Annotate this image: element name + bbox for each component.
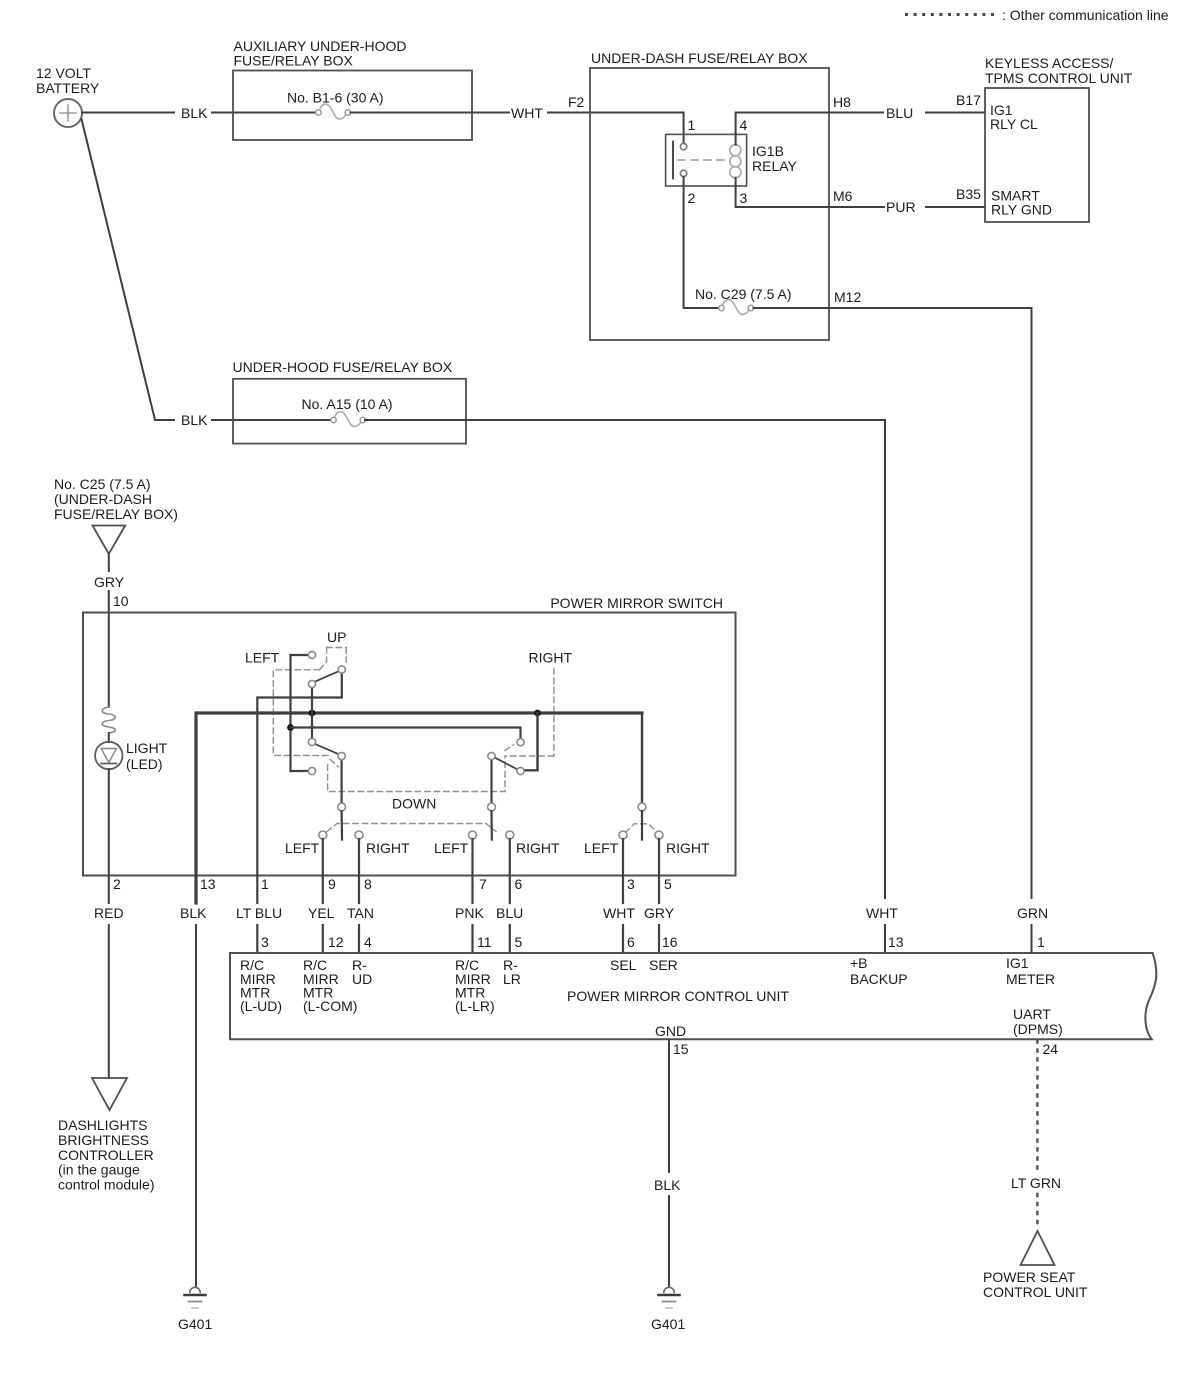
svg-text:KEYLESS ACCESS/: KEYLESS ACCESS/ bbox=[985, 55, 1114, 71]
aux under-hood fuse/relay box bbox=[233, 38, 472, 140]
svg-text:(L-COM): (L-COM) bbox=[303, 998, 357, 1014]
svg-text:24: 24 bbox=[1043, 1041, 1059, 1057]
svg-text:H8: H8 bbox=[833, 94, 851, 110]
svg-text:TAN: TAN bbox=[347, 905, 374, 921]
svg-text:(L-UD): (L-UD) bbox=[240, 998, 282, 1014]
svg-text:CONTROL UNIT: CONTROL UNIT bbox=[983, 1284, 1088, 1300]
svg-text:6: 6 bbox=[627, 934, 635, 950]
svg-text:9: 9 bbox=[328, 876, 336, 892]
svg-text:LIGHT: LIGHT bbox=[126, 740, 168, 756]
svg-text:12 VOLT: 12 VOLT bbox=[36, 65, 91, 81]
svg-text:4: 4 bbox=[740, 117, 748, 133]
svg-text:1: 1 bbox=[1037, 934, 1045, 950]
svg-text:B17: B17 bbox=[956, 92, 981, 108]
svg-text:UNDER-DASH FUSE/RELAY BOX: UNDER-DASH FUSE/RELAY BOX bbox=[591, 50, 808, 66]
connector C25 stub from under-dash fuse box bbox=[54, 476, 178, 554]
svg-text:(UNDER-DASH: (UNDER-DASH bbox=[54, 491, 152, 507]
svg-text:7: 7 bbox=[479, 876, 487, 892]
svg-text:15: 15 bbox=[673, 1041, 689, 1057]
svg-text:YEL: YEL bbox=[308, 905, 335, 921]
wire WHT under-hood fuse to control unit pin13 (+B BACKUP) bbox=[365, 420, 885, 953]
svg-text:IG1B: IG1B bbox=[752, 143, 784, 159]
svg-text:BLK: BLK bbox=[654, 1177, 681, 1193]
wire PNK pin7 bbox=[471, 839, 473, 953]
wire second link to right contact bbox=[291, 728, 521, 739]
svg-text:B35: B35 bbox=[956, 186, 981, 202]
svg-text:3: 3 bbox=[740, 190, 748, 206]
svg-text:No. A15 (10 A): No. A15 (10 A) bbox=[302, 396, 393, 412]
svg-text:LEFT: LEFT bbox=[434, 840, 469, 856]
LED light (LIGHT (LED)) bbox=[95, 733, 168, 772]
svg-text:SEL: SEL bbox=[610, 957, 637, 973]
wire relay pin2 to fuse C29 bbox=[684, 177, 719, 308]
svg-text:No. C25 (7.5 A): No. C25 (7.5 A) bbox=[54, 476, 151, 492]
svg-text:BLK: BLK bbox=[181, 105, 208, 121]
keyless access / TPMS control unit bbox=[985, 55, 1133, 222]
svg-text:G401: G401 bbox=[651, 1316, 685, 1332]
svg-text:TPMS CONTROL UNIT: TPMS CONTROL UNIT bbox=[985, 70, 1133, 86]
battery B1 (12 volt battery) bbox=[36, 65, 100, 127]
wire YEL pin9 bbox=[322, 839, 324, 953]
svg-text:WHT: WHT bbox=[866, 905, 898, 921]
svg-text:WHT: WHT bbox=[603, 905, 635, 921]
svg-text:RELAY: RELAY bbox=[752, 158, 798, 174]
dotted communication line UART pin24 bbox=[1036, 1041, 1038, 1229]
svg-text:LT GRN: LT GRN bbox=[1011, 1175, 1061, 1191]
selector 1 pivot and blade bbox=[338, 803, 346, 839]
svg-text:LEFT: LEFT bbox=[245, 650, 280, 666]
node junction on LEFT common bbox=[287, 724, 294, 731]
svg-text:2: 2 bbox=[113, 876, 121, 892]
wire BLK battery to aux fuse box bbox=[82, 112, 316, 114]
wire thick bus right end to selector 3 bbox=[641, 713, 643, 803]
power mirror control unit box bbox=[230, 953, 1156, 1039]
svg-text:5: 5 bbox=[664, 876, 672, 892]
selector labels bbox=[285, 840, 710, 856]
svg-text:PNK: PNK bbox=[455, 905, 484, 921]
selector 3 pivot and blade bbox=[638, 803, 646, 839]
svg-text:LT BLU: LT BLU bbox=[236, 905, 282, 921]
node junction bus right bbox=[534, 710, 541, 717]
svg-text:M6: M6 bbox=[833, 188, 853, 204]
svg-text:RIGHT: RIGHT bbox=[666, 840, 710, 856]
switch up-left assembly: contacts and blade bbox=[257, 651, 345, 903]
svg-text:F2: F2 bbox=[568, 94, 585, 110]
wire battery diagonal to under-hood fuse box bbox=[82, 119, 332, 420]
node junction bus left bbox=[309, 710, 316, 717]
svg-text:1: 1 bbox=[261, 876, 269, 892]
svg-text:FUSE/RELAY BOX): FUSE/RELAY BOX) bbox=[54, 506, 178, 522]
svg-text:BLU: BLU bbox=[886, 105, 913, 121]
svg-text:POWER SEAT: POWER SEAT bbox=[983, 1269, 1076, 1285]
svg-text:UD: UD bbox=[352, 971, 372, 987]
svg-text:control module): control module) bbox=[58, 1177, 155, 1193]
svg-text:LEFT: LEFT bbox=[584, 840, 619, 856]
svg-text:BACKUP: BACKUP bbox=[850, 971, 908, 987]
wire BLU relay pin4 to keyless unit (H8/B17) bbox=[736, 113, 985, 145]
svg-text:BRIGHTNESS: BRIGHTNESS bbox=[58, 1132, 149, 1148]
svg-text:1: 1 bbox=[688, 117, 696, 133]
fuse C29 (7.5 A) bbox=[719, 300, 754, 315]
connector arrow to dashlights controller bbox=[92, 1078, 127, 1110]
svg-text:(LED): (LED) bbox=[126, 756, 163, 772]
svg-text:G401: G401 bbox=[178, 1316, 212, 1332]
svg-text:(DPMS): (DPMS) bbox=[1013, 1021, 1063, 1037]
wire thick bus from pin13 bbox=[196, 713, 642, 903]
pin number row above control unit bbox=[261, 934, 678, 950]
svg-text:RIGHT: RIGHT bbox=[516, 840, 560, 856]
svg-text:PUR: PUR bbox=[886, 199, 916, 215]
ground G401 right bbox=[651, 1287, 685, 1332]
svg-text:16: 16 bbox=[662, 934, 678, 950]
svg-text:13: 13 bbox=[200, 876, 216, 892]
svg-text:13: 13 bbox=[888, 934, 904, 950]
svg-text:UP: UP bbox=[327, 629, 346, 645]
svg-text:GRY: GRY bbox=[644, 905, 675, 921]
dashed linkage UP mechanism bbox=[273, 648, 346, 767]
svg-text:POWER MIRROR SWITCH: POWER MIRROR SWITCH bbox=[550, 595, 723, 611]
svg-text:GRY: GRY bbox=[94, 574, 125, 590]
svg-text:BLK: BLK bbox=[181, 412, 208, 428]
svg-text:+B: +B bbox=[850, 955, 868, 971]
svg-text:(L-LR): (L-LR) bbox=[455, 998, 495, 1014]
svg-text:RIGHT: RIGHT bbox=[529, 650, 573, 666]
wire GRN fuse C29 to control unit pin1 (M12) bbox=[754, 308, 1032, 953]
svg-text:RLY CL: RLY CL bbox=[990, 116, 1038, 132]
selector 2 pivot and blade bbox=[488, 803, 496, 839]
svg-text:BLU: BLU bbox=[496, 905, 523, 921]
svg-text:POWER MIRROR CONTROL UNIT: POWER MIRROR CONTROL UNIT bbox=[567, 988, 789, 1004]
svg-text:M12: M12 bbox=[834, 289, 861, 305]
svg-text:BLK: BLK bbox=[180, 905, 207, 921]
fuse B1-6 (30 A) bbox=[316, 104, 351, 119]
svg-text:2: 2 bbox=[688, 190, 696, 206]
svg-text:3: 3 bbox=[627, 876, 635, 892]
svg-text:RLY GND: RLY GND bbox=[991, 202, 1052, 218]
under-hood fuse/relay box bbox=[233, 359, 467, 444]
svg-text:SER: SER bbox=[649, 957, 678, 973]
under-dash fuse/relay box bbox=[590, 50, 829, 340]
svg-text:FUSE/RELAY BOX: FUSE/RELAY BOX bbox=[234, 53, 354, 69]
svg-text:(in the gauge: (in the gauge bbox=[58, 1162, 140, 1178]
svg-text:UNDER-HOOD FUSE/RELAY BOX: UNDER-HOOD FUSE/RELAY BOX bbox=[233, 359, 453, 375]
selector contact circles row bbox=[319, 831, 663, 839]
wire WHT pin3 bbox=[622, 839, 624, 953]
svg-text:5: 5 bbox=[515, 934, 523, 950]
ground G401 left bbox=[178, 1287, 212, 1332]
wire GRY connector C25 to switch pin10 bbox=[108, 554, 110, 707]
switch right assembly: contacts and blade bbox=[488, 739, 524, 803]
svg-text:LR: LR bbox=[503, 971, 521, 987]
dashed linkage DOWN mechanism bbox=[328, 757, 505, 792]
svg-text:No. B1-6 (30 A): No. B1-6 (30 A) bbox=[287, 90, 384, 106]
fuse A15 (10 A) bbox=[331, 412, 366, 427]
dashed linkage selector bar bbox=[327, 824, 657, 833]
svg-text:IG1: IG1 bbox=[1006, 955, 1029, 971]
svg-text:RIGHT: RIGHT bbox=[366, 840, 410, 856]
wire LT BLU pin1 lower part bbox=[256, 925, 258, 953]
wire PUR relay pin3 to keyless unit (M6/B35) bbox=[736, 178, 985, 207]
svg-text:4: 4 bbox=[364, 934, 372, 950]
svg-text:UART: UART bbox=[1013, 1006, 1051, 1022]
wire BLK control unit GND pin15 to ground bbox=[668, 1040, 670, 1287]
wire BLU pin6 bbox=[509, 839, 511, 953]
svg-text:DOWN: DOWN bbox=[392, 796, 436, 812]
wire right contact drop from bus bbox=[524, 713, 537, 770]
svg-text:: Other communication line: : Other communication line bbox=[1002, 7, 1169, 23]
svg-text:GND: GND bbox=[655, 1023, 686, 1039]
legend: other communication line bbox=[905, 7, 1169, 23]
svg-text:12: 12 bbox=[328, 934, 344, 950]
svg-text:METER: METER bbox=[1006, 971, 1055, 987]
svg-text:WHT: WHT bbox=[511, 105, 543, 121]
wire GRY pin5 bbox=[658, 839, 660, 953]
wire LEFT common (pin contacts link) bbox=[291, 655, 309, 771]
wire color labels row bbox=[236, 905, 675, 921]
svg-text:LEFT: LEFT bbox=[285, 840, 320, 856]
relay IG1B bbox=[666, 117, 798, 206]
svg-text:3: 3 bbox=[261, 934, 269, 950]
svg-text:10: 10 bbox=[113, 593, 129, 609]
power mirror switch box bbox=[83, 595, 736, 876]
svg-text:BATTERY: BATTERY bbox=[36, 80, 100, 96]
svg-text:6: 6 bbox=[515, 876, 523, 892]
control unit internal labels bbox=[240, 955, 1063, 1039]
wire RED LED to switch pin2 and dashlights controller bbox=[108, 769, 110, 1078]
svg-text:GRN: GRN bbox=[1017, 905, 1048, 921]
wire WHT aux box to under-dash box bbox=[351, 113, 684, 144]
svg-text:No. C29 (7.5 A): No. C29 (7.5 A) bbox=[695, 286, 792, 302]
pin number row below switch bbox=[261, 876, 672, 892]
connector arrow to power seat control unit bbox=[1021, 1231, 1055, 1265]
svg-text:DASHLIGHTS: DASHLIGHTS bbox=[58, 1117, 147, 1133]
svg-text:11: 11 bbox=[477, 934, 492, 950]
dashed linkage RIGHT mechanism bbox=[505, 669, 554, 757]
wire TAN pin8 bbox=[358, 839, 360, 953]
resistor R1 (illumination) bbox=[102, 707, 115, 733]
svg-text:RED: RED bbox=[94, 905, 124, 921]
svg-text:8: 8 bbox=[364, 876, 372, 892]
